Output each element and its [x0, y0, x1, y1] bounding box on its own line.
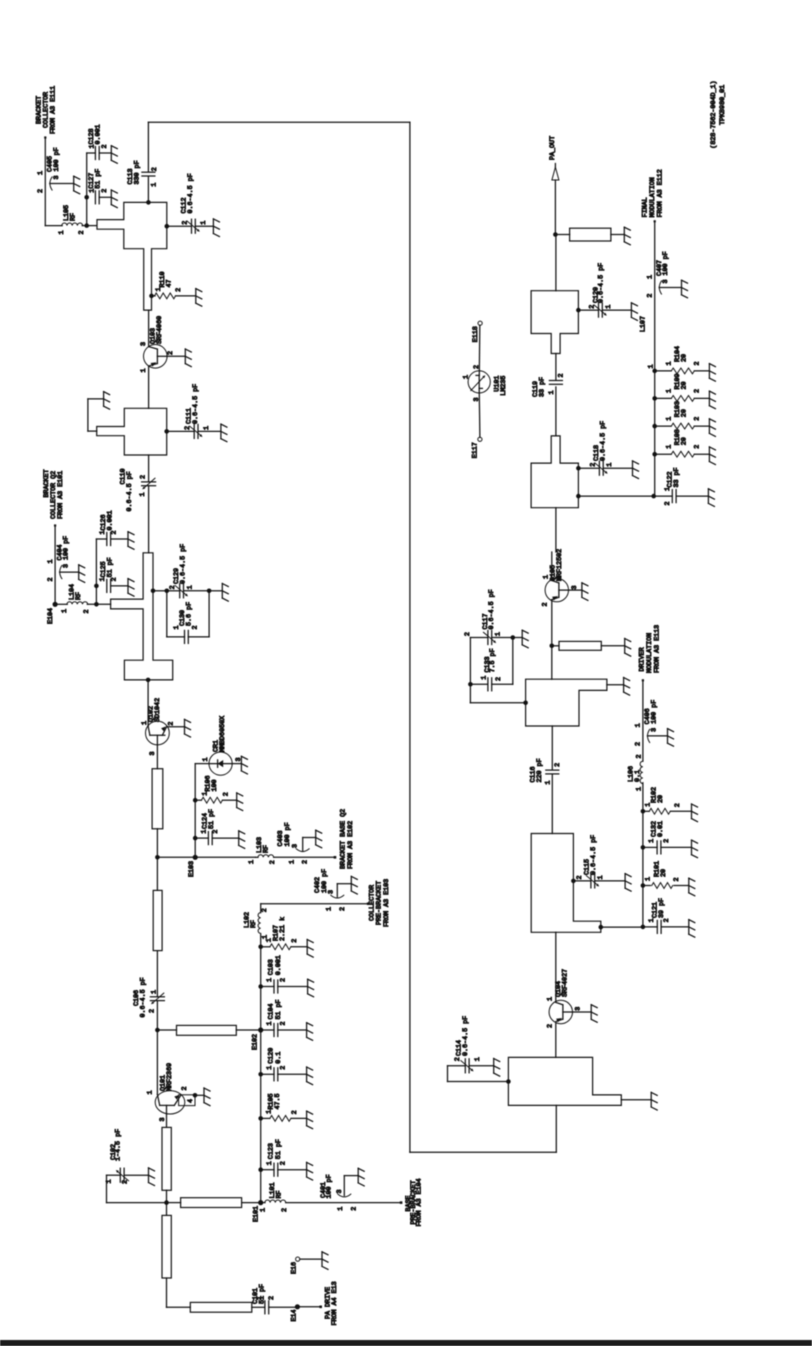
microstrip block Z15: [531, 436, 578, 508]
svg-text:2: 2: [554, 763, 562, 767]
svg-text:1: 1: [646, 275, 654, 279]
svg-text:2: 2: [181, 1086, 189, 1090]
svg-text:1: 1: [547, 997, 555, 1001]
svg-text:20: 20: [681, 437, 689, 445]
node junction: [599, 925, 604, 930]
wire: [297, 1306, 320, 1308]
svg-text:FROM A3 E111: FROM A3 E111: [50, 86, 58, 134]
svg-text:2: 2: [291, 1110, 299, 1114]
svg-text:1: 1: [666, 445, 674, 449]
svg-text:1: 1: [186, 585, 194, 589]
wire: [54, 526, 56, 605]
svg-text:LM235: LM235: [500, 376, 508, 396]
node junction: [146, 200, 151, 205]
node E104: [47, 602, 58, 624]
inductor L102: [244, 908, 270, 939]
resistor R106: [195, 775, 243, 810]
wire: [551, 646, 553, 679]
wire: [478, 325, 481, 375]
capacitor C101: [252, 1284, 297, 1314]
svg-text:2: 2: [454, 1057, 462, 1061]
svg-text:1: 1: [146, 1090, 154, 1094]
wire: [155, 829, 160, 860]
node BRACKET COLLECTOR Q2 FROM A3 E101: [43, 469, 65, 526]
svg-text:1: 1: [61, 609, 69, 613]
feedthrough capacitor C401: [320, 1168, 364, 1211]
wire: [286, 1202, 401, 1204]
svg-text:2: 2: [139, 475, 147, 479]
diode CR1: [202, 716, 243, 775]
svg-text:1: 1: [462, 375, 470, 379]
svg-text:20: 20: [657, 795, 665, 803]
microstrip Z14: [559, 641, 601, 650]
resistor R104: [655, 346, 716, 381]
svg-text:2: 2: [546, 1024, 554, 1028]
svg-text:2: 2: [495, 677, 503, 681]
node E14: [291, 1304, 300, 1321]
microstrip block Z13: [526, 679, 607, 726]
svg-text:0.1: 0.1: [634, 770, 642, 782]
svg-text:1: 1: [37, 171, 45, 175]
svg-text:E118: E118: [472, 326, 480, 342]
node junction: [164, 429, 169, 434]
trimmer capacitor C115: [573, 835, 631, 891]
wire: [87, 602, 110, 607]
svg-text:RF: RF: [275, 1190, 283, 1198]
svg-text:2: 2: [589, 463, 597, 467]
node PA_OUT: [549, 136, 559, 180]
inductor L106: [628, 754, 644, 791]
capacitor C122: [655, 467, 715, 506]
capacitor C119: [532, 373, 566, 397]
svg-text:RF: RF: [250, 920, 258, 928]
wire feedback top: [148, 122, 410, 172]
svg-text:1: 1: [266, 1021, 274, 1025]
svg-text:20: 20: [681, 381, 689, 389]
svg-text:E117: E117: [472, 442, 480, 458]
svg-text:2: 2: [151, 167, 159, 171]
svg-text:1: 1: [666, 361, 674, 365]
svg-text:1: 1: [543, 575, 551, 579]
wire: [555, 387, 557, 436]
svg-text:1: 1: [58, 230, 66, 234]
svg-text:RF: RF: [262, 845, 270, 853]
svg-text:(828-7562-004D_1): (828-7562-004D_1): [710, 80, 718, 148]
transistor Q102: [141, 698, 176, 756]
svg-text:1: 1: [203, 426, 211, 430]
capacitor C123: [261, 1139, 313, 1180]
svg-text:0.01: 0.01: [657, 821, 665, 837]
svg-text:RF: RF: [69, 213, 77, 221]
svg-text:1: 1: [548, 390, 556, 394]
node junction: [146, 678, 151, 683]
node BRACKET BASE Q2 FROM A3 E102: [334, 809, 355, 869]
svg-text:2: 2: [279, 1161, 287, 1165]
svg-text:51 pF: 51 pF: [208, 809, 216, 829]
svg-text:1: 1: [266, 1110, 274, 1114]
svg-text:1: 1: [266, 1161, 274, 1165]
node junction: [523, 701, 528, 706]
svg-text:MMBD6050X: MMBD6050X: [219, 716, 227, 752]
trimmer capacitor C117: [464, 589, 528, 647]
svg-text:2: 2: [473, 365, 481, 369]
ground: [625, 639, 631, 657]
wire: [193, 764, 198, 858]
feedthrough capacitor C403: [277, 822, 322, 864]
wire: [148, 455, 150, 482]
trimmer capacitor C106: [133, 951, 165, 1030]
svg-text:FROM A3 E112: FROM A3 E112: [657, 169, 665, 217]
feedthrough capacitor C407: [646, 251, 687, 297]
wire: [550, 600, 555, 648]
svg-text:2: 2: [212, 830, 220, 834]
microstrip Z7: [153, 890, 162, 950]
svg-text:0.001: 0.001: [275, 955, 283, 975]
svg-text:3: 3: [291, 844, 299, 848]
trimmer capacitor C112: [167, 173, 220, 236]
svg-text:2: 2: [557, 373, 565, 377]
feedthrough capacitor C406: [635, 700, 674, 746]
node DRIVER MODULATION FROM A3 E113: [639, 625, 662, 682]
wire: [84, 153, 89, 226]
wire: [274, 856, 335, 858]
svg-text:2: 2: [167, 351, 175, 355]
capacitor C113: [127, 160, 159, 186]
svg-text:2: 2: [184, 426, 192, 430]
microstrip Z4: [152, 769, 163, 829]
svg-text:0.001: 0.001: [106, 510, 114, 530]
svg-text:MRF2369: MRF2369: [166, 1063, 174, 1091]
svg-text:1: 1: [474, 1057, 482, 1061]
svg-text:2: 2: [167, 722, 175, 726]
microstrip Z8: [177, 1025, 237, 1035]
svg-text:0.6-4.5 pF: 0.6-4.5 pF: [599, 421, 607, 461]
wire: [148, 310, 150, 347]
inductor L101: [259, 1182, 289, 1212]
svg-text:2: 2: [281, 1208, 289, 1212]
trimmer capacitor C120: [578, 263, 637, 321]
svg-text:100 pF: 100 pF: [284, 822, 292, 846]
wire: [555, 1024, 557, 1058]
svg-text:2: 2: [350, 1207, 358, 1211]
svg-text:47.5: 47.5: [274, 1093, 282, 1109]
svg-text:E16: E16: [291, 1262, 299, 1274]
inductor L103: [248, 837, 277, 864]
ground: [591, 1005, 597, 1023]
svg-text:FROM A3 E104: FROM A3 E104: [416, 1178, 424, 1226]
svg-text:2: 2: [261, 908, 269, 912]
wire: [555, 234, 624, 236]
transistor Q101: [146, 1063, 189, 1122]
wire: [209, 590, 222, 592]
svg-text:3: 3: [571, 585, 579, 589]
svg-text:SD1042: SD1042: [154, 698, 162, 722]
svg-text:E14: E14: [291, 1309, 299, 1321]
wire: [607, 684, 624, 686]
svg-text:2: 2: [302, 860, 310, 864]
capacitor C128: [87, 124, 118, 163]
svg-text:2: 2: [279, 1066, 287, 1070]
svg-text:1: 1: [645, 877, 653, 881]
microstrip block Z2: [97, 408, 167, 455]
wire: [157, 856, 255, 858]
node junction: [571, 879, 576, 884]
wire: [94, 539, 99, 604]
svg-text:3: 3: [336, 1189, 344, 1193]
resistor R109: [655, 373, 716, 408]
svg-text:E103: E103: [188, 861, 196, 877]
capacitor C130: [167, 591, 209, 644]
svg-text:1: 1: [648, 364, 656, 368]
svg-text:2: 2: [78, 230, 86, 234]
wire: [252, 1306, 265, 1308]
ground: [185, 719, 191, 737]
svg-text:PA_OUT: PA_OUT: [549, 136, 557, 160]
node BASE PRE-BRACKET FROM A3 E104: [400, 1178, 424, 1226]
svg-text:1: 1: [288, 860, 296, 864]
feedthrough capacitor C405: [37, 147, 80, 193]
svg-text:2: 2: [291, 939, 299, 943]
svg-text:1: 1: [635, 787, 643, 791]
trimmer capacitor C110: [120, 468, 156, 511]
node junction: [506, 1079, 511, 1084]
svg-text:1: 1: [480, 676, 488, 680]
capacitor C120: [261, 1048, 313, 1085]
wire: [167, 355, 185, 357]
capacitor C124: [195, 809, 245, 848]
inductor L104: [61, 584, 91, 614]
svg-text:2: 2: [694, 445, 702, 449]
svg-text:0.6-4.5 pF: 0.6-4.5 pF: [187, 173, 195, 213]
wire: [601, 645, 624, 647]
wire: [555, 508, 557, 552]
svg-text:1: 1: [200, 221, 208, 225]
wire: [551, 552, 553, 581]
svg-text:2: 2: [279, 978, 287, 982]
svg-text:2: 2: [37, 189, 45, 193]
ground: [222, 584, 228, 602]
microstrip Z9: [162, 1215, 171, 1278]
wire: [167, 1278, 191, 1307]
resistor R102: [643, 787, 698, 822]
bottom bar: [0, 1340, 812, 1346]
wire: [88, 399, 104, 431]
svg-text:1: 1: [140, 368, 148, 372]
svg-text:1: 1: [597, 875, 605, 879]
svg-text:33 pF: 33 pF: [673, 467, 681, 487]
svg-text:20: 20: [660, 869, 668, 877]
inductor L107: [639, 316, 655, 368]
svg-text:2: 2: [635, 754, 643, 758]
wire: [156, 857, 158, 890]
resistor R108: [655, 429, 716, 464]
svg-text:220 pF: 220 pF: [536, 758, 544, 782]
microstrip Z6: [162, 1127, 171, 1190]
svg-text:1: 1: [605, 305, 613, 309]
capacitor C133: [470, 638, 512, 691]
svg-text:1: 1: [200, 830, 208, 834]
wire: [166, 1203, 168, 1216]
ground: [624, 227, 630, 245]
node junction: [207, 589, 212, 594]
svg-text:1: 1: [606, 463, 614, 467]
ground: [204, 1088, 210, 1106]
svg-text:39 pF: 39 pF: [658, 898, 666, 918]
resistor R110: [149, 271, 202, 306]
svg-text:20: 20: [681, 354, 689, 362]
svg-text:1: 1: [666, 417, 674, 421]
svg-text:2: 2: [542, 602, 550, 606]
wire: [166, 1114, 168, 1128]
svg-text:51 pF: 51 pF: [275, 1139, 283, 1159]
svg-text:100: 100: [211, 779, 219, 791]
node E101: [252, 1200, 263, 1222]
svg-text:2: 2: [122, 1180, 130, 1184]
node junction: [151, 589, 156, 594]
svg-text:2: 2: [576, 875, 584, 879]
svg-text:51 pF: 51 pF: [94, 169, 102, 189]
svg-text:2: 2: [83, 609, 91, 613]
svg-text:SRF4027: SRF4027: [562, 969, 570, 997]
svg-text:2: 2: [269, 860, 277, 864]
wire: [601, 926, 643, 928]
wire: [167, 726, 185, 728]
microstrip Z10: [190, 1302, 252, 1312]
node junction: [165, 224, 170, 229]
svg-text:2: 2: [279, 1021, 287, 1025]
svg-text:2: 2: [635, 742, 643, 746]
wire: [82, 225, 97, 227]
node E118: [472, 321, 482, 342]
wire: [148, 366, 150, 408]
wire: [470, 684, 525, 703]
svg-text:2: 2: [47, 577, 55, 581]
svg-text:1: 1: [259, 1208, 267, 1212]
wire: [555, 235, 557, 291]
node FINAL MODULATION FROM A3 E112: [642, 169, 665, 222]
svg-text:2: 2: [223, 792, 231, 796]
svg-text:3 100 pF: 3 100 pF: [53, 147, 61, 179]
svg-text:2: 2: [663, 839, 671, 843]
ground: [241, 756, 247, 774]
wire: [147, 680, 149, 726]
svg-text:2: 2: [268, 1296, 276, 1300]
wire: [555, 932, 557, 1002]
capacitor C126: [96, 510, 134, 549]
wire: [555, 354, 557, 381]
node junction: [576, 308, 581, 313]
svg-text:1: 1: [141, 721, 149, 725]
trimmer capacitor C102: [105, 1129, 166, 1203]
transistor Q104: [546, 969, 582, 1028]
node E103: [188, 855, 198, 877]
trimmer capacitor C111: [167, 384, 227, 442]
node junction: [468, 682, 473, 687]
capacitor C116: [530, 758, 562, 784]
capacitor C132: [643, 821, 698, 858]
svg-text:RF: RF: [75, 592, 83, 600]
svg-text:1: 1: [648, 918, 656, 922]
node BRACKET COLLECTOR FROM A3 E111: [36, 86, 58, 139]
resistor R107: [261, 917, 314, 957]
svg-text:FROM A4 E13: FROM A4 E13: [331, 1281, 339, 1325]
wire: [55, 603, 67, 605]
wire bus: [651, 221, 657, 498]
wire: [554, 180, 556, 235]
svg-text:1: 1: [635, 723, 643, 727]
ground: [582, 583, 588, 601]
microstrip block Z3: [111, 553, 173, 680]
svg-text:3 100 pF: 3 100 pF: [662, 251, 670, 283]
svg-text:1: 1: [202, 757, 210, 761]
svg-text:0.6-4.5 pF: 0.6-4.5 pF: [139, 977, 147, 1017]
svg-text:FROM A3 E113: FROM A3 E113: [654, 625, 662, 673]
resistor R105: [261, 1093, 313, 1128]
wire: [45, 225, 62, 227]
wire feedback right: [409, 122, 411, 1152]
wire: [232, 763, 241, 765]
wire: [153, 589, 169, 594]
microstrip block Z1: [97, 202, 167, 310]
svg-text:1: 1: [150, 183, 158, 187]
feedthrough capacitor C402: [314, 869, 358, 911]
wire: [551, 774, 553, 833]
capacitor C104: [261, 999, 313, 1040]
svg-text:2: 2: [175, 288, 183, 292]
svg-text:2: 2: [663, 918, 671, 922]
node junction: [84, 223, 89, 228]
wire: [44, 138, 46, 226]
capacitor C125: [99, 557, 134, 596]
ground: [322, 1252, 328, 1270]
svg-text:1: 1: [266, 978, 274, 982]
svg-text:2: 2: [694, 389, 702, 393]
microstrip block Z16: [531, 291, 578, 354]
wire: [469, 638, 471, 685]
node PA DRIVE FROM A4 E13: [319, 1281, 339, 1325]
svg-text:51 pF: 51 pF: [275, 999, 283, 1019]
svg-text:2: 2: [664, 501, 672, 505]
svg-text:E102: E102: [252, 1034, 260, 1050]
svg-text:FROM A3 E101: FROM A3 E101: [57, 471, 65, 519]
node junction: [553, 232, 558, 237]
svg-text:1: 1: [151, 990, 159, 994]
wire: [578, 495, 653, 497]
trimmer capacitor C118: [578, 421, 638, 479]
svg-text:100 pF: 100 pF: [321, 869, 329, 893]
svg-text:1: 1: [326, 907, 334, 911]
svg-text:2.21 k: 2.21 k: [279, 917, 287, 941]
svg-text:1: 1: [248, 860, 256, 864]
svg-text:0.6-4.5 pF: 0.6-4.5 pF: [462, 1016, 470, 1056]
wire feedback bottom: [410, 1105, 556, 1152]
wire: [569, 589, 582, 591]
svg-text:1: 1: [139, 492, 147, 496]
wire: [551, 726, 553, 770]
svg-text:FROM A3 E103: FROM A3 E103: [383, 879, 391, 927]
node junction: [164, 1200, 169, 1205]
ground: [651, 1092, 657, 1110]
svg-text:51 pF: 51 pF: [106, 557, 114, 577]
svg-text:SRF4060: SRF4060: [156, 316, 164, 344]
node E117: [472, 437, 482, 458]
transistor Q105: [542, 549, 579, 607]
svg-text:0.6-4.5 pF: 0.6-4.5 pF: [488, 589, 496, 629]
node junction: [576, 494, 581, 499]
wire: [148, 486, 150, 553]
svg-text:1: 1: [648, 839, 656, 843]
resistor R103: [655, 401, 716, 436]
